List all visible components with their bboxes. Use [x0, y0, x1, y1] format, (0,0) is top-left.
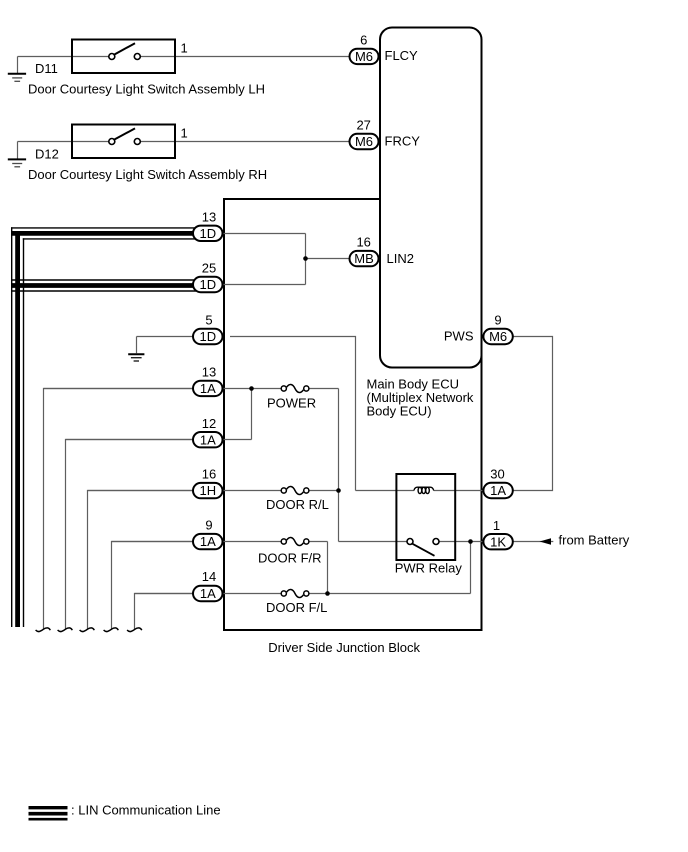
connector M6 FLCY [350, 49, 379, 64]
connector 1A 30 [483, 483, 512, 498]
wire F/R down to F/L row [327, 542, 329, 594]
wire D11 row [18, 56, 109, 58]
wire coil row right to 1A30 [434, 490, 483, 492]
fuse DOOR F/L [281, 589, 309, 597]
connector M6 PWS [483, 329, 512, 344]
wire ground to 1D5 [137, 336, 216, 338]
connector 1A 13 [193, 381, 223, 396]
svg-text:DOOR F/L: DOOR F/L [266, 600, 327, 615]
svg-text:POWER: POWER [267, 396, 316, 411]
svg-text:FRCY: FRCY [385, 134, 421, 149]
svg-text:MB: MB [354, 251, 374, 266]
svg-text:1: 1 [493, 518, 500, 533]
connector 1A 12 [193, 432, 223, 447]
LIN bus band to 1D25 [11, 280, 196, 291]
wire node to MB [306, 258, 349, 260]
svg-text:M6: M6 [355, 134, 373, 149]
connector M6 FRCY [350, 134, 379, 149]
wire 1A12 left exit [66, 440, 216, 630]
wire DOOR F/R row [112, 541, 281, 543]
wire 1D13 to node [215, 233, 306, 235]
LIN bus vertical band [12, 227, 24, 627]
wire 1D5 to relay coil feed [230, 337, 356, 491]
svg-text:D12: D12 [35, 147, 59, 162]
wire PWS loop [514, 337, 553, 491]
svg-text:27: 27 [356, 118, 370, 133]
svg-text:M6: M6 [489, 329, 507, 344]
terminator squiggle wire 1A9 [104, 628, 119, 632]
svg-text:1K: 1K [490, 534, 506, 549]
wire DOOR F/L row [135, 593, 281, 595]
svg-text:9: 9 [205, 518, 212, 533]
connector 1K 1 [483, 534, 512, 549]
svg-text:13: 13 [202, 209, 216, 224]
wire 1A9 left exit [112, 542, 216, 630]
wire POWER row [44, 388, 281, 390]
battery arrow [540, 538, 552, 545]
wire 1A13 left exit [44, 389, 216, 630]
switch D12 [72, 125, 175, 159]
ground D11 [8, 74, 26, 82]
svg-text:Door Courtesy Light Switch Ass: Door Courtesy Light Switch Assembly RH [28, 167, 267, 182]
terminator squiggle wire 1A14 [127, 628, 142, 632]
svg-text:1: 1 [181, 126, 188, 141]
svg-text:1D: 1D [199, 329, 216, 344]
wire 1D5 ground stem [136, 337, 138, 354]
svg-text:1D: 1D [199, 226, 216, 241]
wire coil row left [356, 490, 414, 492]
svg-text:Driver Side Junction Block: Driver Side Junction Block [268, 640, 420, 655]
terminator squiggle wire 1A12 [58, 628, 73, 632]
LIN bus band to 1D13 [11, 228, 196, 239]
wire 1H16 left exit [88, 491, 216, 630]
connector ovals [193, 49, 513, 602]
svg-text:: LIN Communication Line: : LIN Communication Line [71, 803, 221, 818]
connector 1D 5 [193, 329, 223, 344]
svg-text:12: 12 [202, 416, 216, 431]
svg-text:9: 9 [494, 313, 501, 328]
svg-text:1H: 1H [199, 483, 216, 498]
svg-text:13: 13 [202, 365, 216, 380]
connector MB LIN2 [350, 251, 379, 266]
wire 1D25 to node [215, 284, 306, 286]
wire D12 ground stem [17, 142, 19, 159]
node POWER/1A12 [249, 386, 254, 391]
svg-text:D11: D11 [35, 61, 58, 76]
connector 1H 16 [193, 483, 223, 498]
svg-text:DOOR F/R: DOOR F/R [258, 550, 322, 565]
junction block: Driver Side Junction Block [224, 199, 482, 630]
connector 1D 13 [193, 226, 223, 241]
svg-text:5: 5 [205, 313, 212, 328]
svg-text:from Battery: from Battery [559, 532, 630, 547]
svg-text:1A: 1A [200, 381, 216, 396]
node LIN2 [303, 256, 308, 261]
node 1K [468, 539, 473, 544]
wire F/L up to 1K node [470, 542, 472, 594]
wire D11 ground stem [17, 57, 19, 74]
wire 1A14 left exit [135, 594, 216, 630]
terminator squiggle wire 1H16 [80, 628, 95, 632]
connector 1A 9 [193, 534, 223, 549]
ground 1D5 [128, 354, 144, 361]
wire battery [514, 541, 554, 543]
wire relay switch row [339, 541, 408, 543]
svg-text:DOOR R/L: DOOR R/L [266, 497, 329, 512]
relay switch [407, 539, 413, 545]
relay PWR Relay box [396, 474, 455, 560]
node F/R F/L [325, 591, 330, 596]
terminator squiggle wire 1A13 [36, 628, 51, 632]
svg-text:16: 16 [202, 467, 216, 482]
node R/L coil [336, 488, 341, 493]
svg-text:FLCY: FLCY [385, 48, 419, 63]
svg-text:LIN2: LIN2 [387, 251, 414, 266]
wire 1A12 up to POWER row [251, 389, 253, 440]
ground D12 [8, 159, 26, 166]
svg-text:14: 14 [202, 569, 216, 584]
svg-text:30: 30 [490, 467, 504, 482]
svg-text:25: 25 [202, 261, 216, 276]
wire node column LIN2 [305, 234, 307, 285]
connector 1D 25 [193, 277, 223, 292]
svg-text:1: 1 [181, 40, 188, 55]
fuse DOOR F/R [281, 537, 309, 545]
svg-text:1A: 1A [200, 432, 216, 447]
svg-text:PWS: PWS [444, 329, 474, 344]
svg-text:Door Courtesy Light Switch Ass: Door Courtesy Light Switch Assembly LH [28, 82, 265, 97]
wire D12 row [18, 141, 109, 143]
wire DOOR R/L row [88, 490, 281, 492]
svg-text:M6: M6 [355, 49, 373, 64]
svg-text:1D: 1D [199, 277, 216, 292]
fuse POWER [281, 384, 309, 392]
wire R/L node down to switch row [338, 491, 340, 542]
wire POWER down to R/L node [338, 389, 340, 491]
fuse DOOR R/L [281, 486, 309, 494]
wire 1A12 row [66, 439, 252, 441]
legend LIN symbol [29, 808, 68, 820]
connector labels [199, 49, 507, 601]
svg-text:Body ECU): Body ECU) [367, 404, 432, 419]
svg-text:6: 6 [360, 33, 367, 48]
svg-text:16: 16 [356, 235, 370, 250]
relay coil [414, 487, 434, 493]
svg-text:PWR Relay: PWR Relay [395, 561, 463, 576]
svg-text:1A: 1A [200, 586, 216, 601]
connector 1A 14 [193, 586, 223, 601]
svg-text:1A: 1A [200, 534, 216, 549]
svg-text:1A: 1A [490, 483, 506, 498]
switch D11 [72, 40, 175, 74]
ECU box: Main Body ECU [380, 28, 482, 368]
